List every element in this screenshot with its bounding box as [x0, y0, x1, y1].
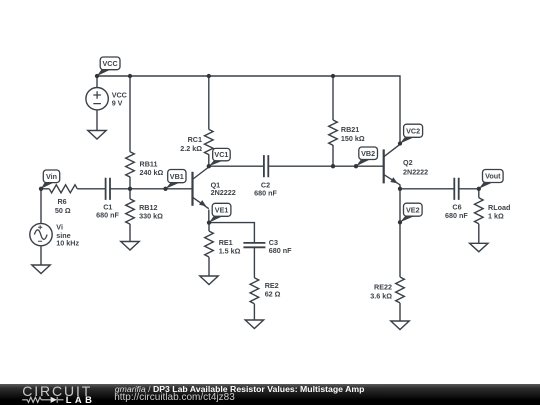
junction VB2 node — [354, 164, 358, 168]
svg-text:VB2: VB2 — [361, 149, 375, 158]
capacitor C6 — [454, 178, 458, 200]
svg-text:Q2: Q2 — [403, 158, 413, 167]
resistor RB12 — [126, 199, 135, 224]
svg-text:Vin: Vin — [46, 172, 57, 181]
junction VCC node — [95, 74, 99, 78]
capacitor C1 — [106, 178, 110, 200]
wire C6 to Vout — [459, 188, 479, 190]
flag node VCC — [97, 57, 120, 76]
svg-text:680 nF: 680 nF — [269, 246, 292, 255]
voltage source VCC — [86, 88, 108, 110]
flag node VB1 — [166, 170, 187, 189]
svg-text:2N2222: 2N2222 — [403, 168, 428, 177]
svg-text:VB1: VB1 — [170, 172, 184, 181]
wire RB21 top lead — [332, 76, 334, 120]
junction VE2 node — [398, 220, 402, 224]
junction RB21 bottom — [331, 164, 335, 168]
svg-text:2N2222: 2N2222 — [211, 188, 236, 197]
junction Vout node — [477, 187, 481, 191]
wire VCC source top lead — [96, 76, 98, 88]
flag node VC1 — [209, 148, 230, 166]
resistor RE1 — [205, 231, 214, 257]
wire C2 to Q2 base — [268, 165, 383, 167]
svg-text:VE1: VE1 — [215, 205, 229, 214]
junction RC1 top — [207, 74, 211, 78]
junction VC2 / Q2 collector — [398, 141, 402, 145]
svg-text:150 kΩ: 150 kΩ — [341, 134, 365, 143]
svg-text:240 kΩ: 240 kΩ — [140, 168, 164, 177]
resistor RE22 — [396, 277, 405, 303]
ground (RE2) — [245, 320, 263, 329]
ground (Vi source) — [32, 265, 50, 274]
ground (VCC source) — [88, 131, 106, 140]
svg-text:Vout: Vout — [485, 172, 501, 181]
wire RLoad top lead — [478, 189, 480, 198]
transistor Q2 — [384, 144, 400, 185]
resistor RLoad — [474, 198, 483, 224]
ground (RB12) — [121, 242, 139, 251]
resistor RB11 — [126, 152, 135, 177]
CircuitLab logo — [22, 384, 92, 398]
wire C3 to RE2 — [253, 247, 255, 277]
wire input row left — [41, 188, 49, 190]
footer band — [0, 384, 540, 405]
junction RB11/RB12 divider — [128, 187, 132, 191]
capacitor C3 — [243, 243, 265, 247]
flag node VE1 — [209, 203, 231, 222]
wire RB12 top lead — [129, 189, 131, 199]
wire RB21 bottom lead — [332, 145, 334, 166]
resistor RC1 — [205, 129, 214, 154]
junction VC1 / Q1 collector — [207, 164, 211, 168]
svg-text:1.5 kΩ: 1.5 kΩ — [219, 246, 241, 255]
wire collector row to C2 — [209, 165, 264, 167]
junction VB1 node — [163, 187, 167, 191]
transistor Q1 — [193, 167, 209, 209]
svg-text:RE22: RE22 — [374, 282, 392, 291]
wire RE2 bottom lead — [253, 304, 255, 320]
logo resistor-diode strip — [22, 397, 57, 403]
ground (RE1) — [200, 276, 218, 285]
wire RB11 bottom lead — [129, 177, 131, 189]
flag node Vin — [41, 170, 60, 189]
wire R6 to C1 — [77, 188, 105, 190]
flag node VB2 — [356, 147, 378, 166]
wire RC1 bottom lead — [208, 154, 210, 166]
wire RE22 top lead — [399, 189, 401, 277]
wire C1 to Q1 base — [110, 188, 193, 190]
svg-text:62 Ω: 62 Ω — [265, 290, 281, 299]
svg-text:50 Ω: 50 Ω — [55, 206, 71, 215]
flag node Vout — [479, 170, 503, 189]
wire VCC rail — [97, 76, 400, 144]
wire VCC source bottom lead — [96, 111, 98, 131]
capacitor C2 — [264, 155, 268, 177]
wire Q1 emitter lead — [208, 210, 210, 223]
svg-text:VC1: VC1 — [214, 150, 228, 159]
wire Vi source top lead — [40, 189, 42, 224]
junction RB21 top — [331, 74, 335, 78]
wire RE1 bottom lead — [208, 257, 210, 276]
wire emitter row to C3 — [209, 223, 254, 243]
wire RB12 bottom lead — [129, 224, 131, 242]
flag node VE2 — [400, 203, 422, 222]
svg-text:1 kΩ: 1 kΩ — [488, 212, 504, 221]
svg-text:10 kHz: 10 kHz — [56, 239, 79, 248]
junction Vin node — [39, 187, 43, 191]
resistor R6 — [49, 185, 77, 193]
wire RE1 top lead — [208, 223, 210, 232]
junction Q2 emitter — [398, 187, 402, 191]
wire Vi source bottom lead — [40, 247, 42, 266]
svg-text:9 V: 9 V — [112, 98, 123, 107]
ground (RE22) — [391, 321, 409, 330]
svg-text:2.2 kΩ: 2.2 kΩ — [180, 144, 202, 153]
wire output row to C6 — [400, 188, 454, 190]
wire Q2 emitter lead — [399, 185, 401, 189]
svg-text:680 nF: 680 nF — [254, 189, 277, 198]
voltage source Vi (sine) — [30, 223, 52, 245]
junction VE1 / Q1 emitter — [207, 220, 211, 224]
resistor RB21 — [329, 120, 338, 145]
junction RB11 top — [128, 74, 132, 78]
footer text — [115, 385, 365, 394]
svg-text:VC2: VC2 — [406, 126, 420, 135]
svg-text:3.6 kΩ: 3.6 kΩ — [370, 292, 392, 301]
svg-text:VE2: VE2 — [406, 205, 420, 214]
svg-text:R6: R6 — [57, 197, 66, 206]
wire RB11 top lead — [129, 76, 131, 152]
svg-text:680 nF: 680 nF — [96, 210, 119, 219]
wire RE22 bottom lead — [399, 303, 401, 321]
flag node VC2 — [400, 124, 423, 143]
wire RC1 top lead — [208, 76, 210, 129]
resistor RE2 — [250, 278, 259, 304]
svg-text:680 nF: 680 nF — [445, 211, 468, 220]
wire RLoad bottom lead — [478, 224, 480, 244]
svg-text:VCC: VCC — [103, 59, 118, 68]
ground (RLoad) — [470, 243, 488, 252]
svg-text:330 kΩ: 330 kΩ — [139, 211, 163, 220]
